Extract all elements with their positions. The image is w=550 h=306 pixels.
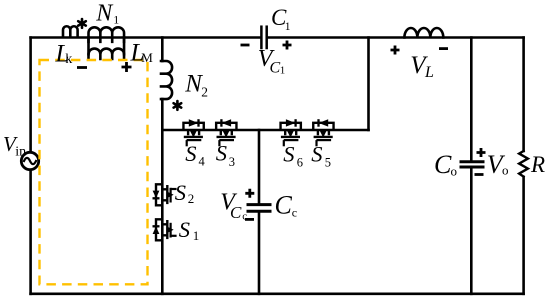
svg-text:C: C (434, 150, 452, 179)
svg-text:4: 4 (199, 155, 206, 169)
svg-text:2: 2 (188, 191, 195, 206)
svg-text:L: L (424, 64, 434, 81)
svg-text:S: S (311, 142, 322, 167)
svg-text:S: S (179, 217, 190, 242)
svg-text:1: 1 (193, 228, 200, 243)
svg-text:C: C (230, 203, 242, 222)
svg-text:C: C (275, 190, 293, 219)
svg-text:S: S (175, 180, 186, 205)
svg-text:S: S (216, 141, 227, 166)
svg-text:k: k (65, 52, 72, 67)
svg-text:3: 3 (229, 155, 235, 169)
svg-text:1: 1 (280, 65, 286, 77)
svg-text:o: o (451, 164, 458, 179)
svg-text:in: in (15, 145, 26, 160)
svg-text:1: 1 (285, 21, 291, 33)
svg-text:S: S (185, 141, 196, 166)
svg-text:1: 1 (113, 13, 119, 27)
svg-text:o: o (502, 162, 509, 177)
svg-text:6: 6 (297, 155, 303, 169)
svg-text:c: c (292, 206, 297, 220)
svg-text:S: S (283, 142, 294, 167)
svg-text:2: 2 (201, 85, 208, 100)
svg-text:5: 5 (325, 155, 331, 169)
svg-text:N: N (95, 1, 114, 27)
svg-text:M: M (141, 50, 153, 65)
svg-text:R: R (530, 152, 545, 177)
svg-text:c: c (242, 211, 247, 223)
